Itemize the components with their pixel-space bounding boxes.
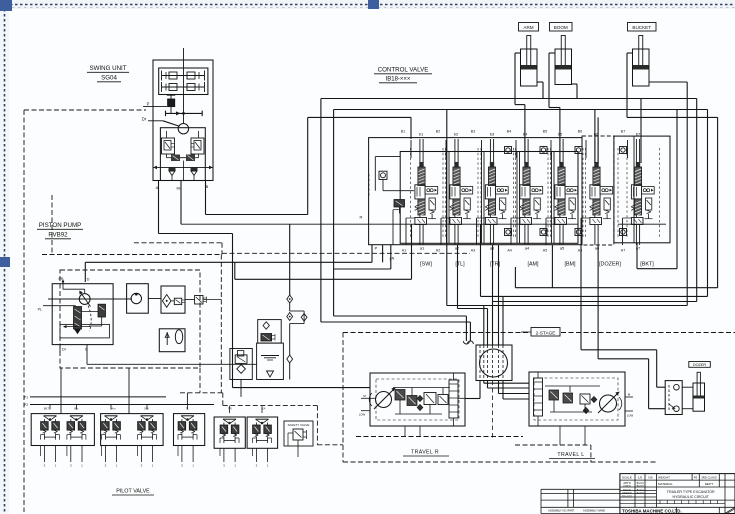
cylinder bucket body	[633, 49, 650, 86]
valve section &#91;BM&#93; spool cap	[559, 162, 563, 167]
svg-text:[AM]: [AM]	[527, 262, 539, 268]
swivel passage lines	[479, 345, 481, 381]
svg-text:1/5: 1/5	[638, 475, 643, 479]
swing makeup line	[153, 166, 213, 168]
svg-text:B5: B5	[543, 130, 547, 134]
swing bridge block left	[171, 155, 180, 162]
cylinder bucket label box	[628, 23, 657, 32]
cooler check diamond	[237, 365, 246, 374]
control valve inlet dashed	[368, 174, 370, 197]
reservoir tank box	[257, 343, 284, 379]
valve section &#91;SW&#93; relief valve	[429, 198, 435, 210]
svg-text:'84.9.5: '84.9.5	[636, 485, 644, 488]
tank accumulator ellipse	[175, 330, 182, 344]
wire swivel to travel L port 3	[498, 381, 500, 394]
travel L inner dashed box	[534, 378, 618, 420]
valve section &#91;BKT&#93; spool cap	[636, 162, 640, 167]
svg-text:REP'T: REP'T	[705, 482, 714, 486]
valve section &#91;AM&#93; spool stem	[524, 215, 526, 218]
svg-text:SWING UNIT: SWING UNIT	[89, 65, 126, 72]
valve section &#91;TR&#93; load check box	[496, 187, 509, 195]
svg-text:ARM: ARM	[523, 25, 533, 30]
svg-text:TRAVEL R: TRAVEL R	[411, 450, 439, 456]
travel R inner dashed box	[376, 379, 459, 420]
valve section &#91;BKT&#93; spool stem	[635, 215, 637, 218]
valve section &#91;SW&#93; spool cap	[419, 162, 423, 167]
valve section &#91;SW&#93; spool upper hatch	[418, 167, 425, 186]
valve section &#91;SW&#93; B-port line	[410, 140, 412, 158]
valve section &#91;TR&#93; spool lower hatch	[488, 199, 495, 215]
return check diamond top	[263, 322, 269, 329]
valve section &#91;TL&#93; B-port line	[445, 140, 447, 158]
control valve inner partial rect	[374, 157, 376, 191]
title block signature row ticks	[656, 503, 725, 505]
travel L motor circle	[600, 395, 617, 412]
pilot group 4a lower stubs	[223, 448, 225, 462]
2-stage select label box	[531, 328, 560, 337]
valve section &#91;SW&#93; spool stem	[419, 215, 421, 218]
svg-text:A1: A1	[402, 249, 406, 253]
cylinder bucket piston	[633, 65, 649, 70]
svg-text:P: P	[375, 246, 378, 251]
filter check diamond	[162, 295, 171, 308]
cylinder arm label box	[519, 23, 539, 32]
valve section &#91;DOZER&#93; lower band	[590, 218, 602, 225]
svg-text:3RD CLASS: 3RD CLASS	[701, 475, 717, 479]
selection handle top-left	[0, 0, 12, 11]
svg-text:'84.8.9: '84.8.9	[636, 492, 644, 495]
valve section &#91;DOZER&#93; spool center band	[590, 185, 600, 199]
tank arrow valve	[166, 332, 168, 345]
valve section &#91;BM&#93; top stubs	[559, 139, 561, 163]
svg-text:A5: A5	[543, 249, 547, 253]
safety valve box	[284, 421, 313, 446]
pilot group 2 lower stubs	[104, 446, 106, 463]
svg-text:TRAVEL L: TRAVEL L	[557, 452, 584, 458]
svg-text:BUCKET: BUCKET	[632, 25, 651, 30]
svg-text:A4: A4	[507, 249, 511, 253]
selection border top	[0, 4, 735, 6]
svg-text:ASSEMBLY NAME: ASSEMBLY NAME	[583, 509, 605, 513]
valve section &#91;TL&#93; load check box	[460, 187, 473, 195]
valve section &#91;AM&#93; spool cap	[524, 162, 528, 167]
valve section &#91;DOZER&#93; spool lower hatch	[593, 199, 600, 215]
svg-text:PL: PL	[38, 308, 42, 312]
wire pilot P dashed to swing	[24, 109, 146, 111]
valve section &#91;BM&#93; relief valve	[569, 198, 575, 210]
dashed below travel L	[515, 444, 591, 446]
valve section &#91;DOZER&#93; spring left	[590, 205, 593, 207]
wire pN branch	[390, 245, 392, 269]
swivel center drain dashed	[492, 381, 494, 441]
valve section &#91;BKT&#93; lower band	[631, 218, 643, 225]
svg-text:P: P	[147, 102, 150, 107]
svg-text:ASSEMBLY NO./PART: ASSEMBLY NO./PART	[548, 509, 575, 513]
valve section &#91;DOZER&#93; A-port line	[580, 218, 582, 245]
swivel joint box	[476, 345, 512, 381]
svg-text:D: D	[87, 278, 90, 282]
svg-text:Am: Am	[111, 407, 116, 411]
dashed pump tail down	[199, 368, 201, 393]
svg-text:CONTROL VALVE: CONTROL VALVE	[378, 67, 429, 74]
valve section &#91;SW&#93; bottom stubs	[419, 225, 421, 246]
pilot feed drops	[49, 405, 51, 410]
wire mid vertical b1-b2	[446, 110, 448, 306]
control valve dozer section dashed box	[582, 136, 614, 245]
pump motor circle	[131, 293, 141, 303]
swing check valve right	[191, 168, 198, 171]
valve section &#91;AM&#93; relief valve	[534, 198, 540, 210]
control valve inlet relief	[394, 200, 405, 208]
valve section &#91;DOZER&#93; spool stem	[594, 215, 596, 218]
tank unit box	[159, 329, 185, 352]
svg-text:TOSHIBA MACHINE CO.LTD.: TOSHIBA MACHINE CO.LTD.	[622, 508, 682, 513]
wire swing B to valve b1	[205, 181, 207, 215]
pilot group 1 lower stubs	[43, 446, 45, 463]
travel R output line	[458, 397, 465, 399]
dashed boundary left vertical	[23, 110, 25, 512]
wire boom base port	[572, 83, 578, 85]
valve section &#91;BM&#93; bottom stubs	[559, 225, 561, 246]
pilot group 4b box	[247, 417, 278, 448]
svg-text:[BM]: [BM]	[564, 262, 576, 268]
cylinder boom piston	[556, 65, 572, 70]
pilot group 1 lower stubs	[70, 446, 72, 463]
pilot group 2 lower stubs	[140, 446, 142, 463]
dashed swing unit left	[51, 195, 53, 255]
return valve box	[258, 320, 282, 344]
valve section &#91;BM&#93; A-port line	[545, 218, 547, 245]
valve section &#91;AM&#93; spool upper hatch	[523, 167, 530, 186]
return valve element	[261, 334, 272, 342]
valve section &#91;AM&#93; spring left	[520, 205, 523, 207]
dashed below travel R	[356, 436, 523, 438]
valve section &#91;TL&#93; bottom stubs	[454, 225, 456, 246]
pilot group 4b lower stubs	[255, 448, 257, 462]
valve section &#91;TR&#93; spool stem	[489, 215, 491, 218]
valve section &#91;BKT&#93; spring left	[631, 205, 634, 207]
valve section &#91;TR&#93; spool upper hatch	[488, 167, 495, 186]
valve section &#91;BM&#93; lower band	[555, 218, 567, 225]
valve section &#91;TR&#93; B-port line	[481, 140, 483, 158]
quick coupler hooks	[463, 341, 469, 344]
valve section &#91;AM&#93; top stubs	[524, 139, 526, 163]
valve section &#91;BKT&#93; spool lower hatch	[634, 199, 641, 215]
svg-text:A7: A7	[621, 249, 625, 253]
dozer cylinder piston	[693, 396, 704, 399]
swing rotary group box	[159, 68, 208, 95]
wire BKT a7 return	[676, 110, 678, 269]
valve section &#91;DOZER&#93; B-port line	[585, 140, 587, 158]
control valve bank inner box	[400, 152, 578, 244]
travel R port stubs	[361, 397, 376, 399]
valve boundary port circles top	[505, 147, 512, 154]
travel R brake valve	[395, 390, 405, 401]
svg-text:MATERIAL: MATERIAL	[658, 482, 673, 486]
swing unit outer box	[153, 60, 213, 181]
check valve 2 on Mu line	[287, 313, 293, 321]
svg-text:b2: b2	[454, 132, 459, 137]
svg-text:P2: P2	[24, 403, 28, 407]
svg-text:P1: P1	[24, 396, 28, 400]
valve section &#91;TR&#93; spool cap	[490, 162, 494, 167]
wire swing Mu down	[180, 181, 182, 225]
check valve 3 on Mu line	[287, 355, 293, 363]
valve section &#91;SW&#93; spool center band	[415, 185, 425, 199]
dashed boundary swing bottom step	[134, 242, 222, 244]
svg-text:kg: kg	[694, 475, 698, 479]
svg-text:YA: YA	[262, 407, 266, 411]
swing center drain line	[183, 161, 185, 181]
wire b7 feed	[640, 99, 642, 164]
swivel joint circle	[480, 349, 508, 377]
valve section &#91;AM&#93; spool center band	[520, 185, 530, 199]
pilot feed verticals from pump area	[60, 368, 62, 414]
valve bank lower gallery line	[181, 223, 578, 225]
pilot group 3 box	[174, 414, 205, 446]
valve section &#91;TL&#93; spool cap	[454, 162, 458, 167]
travel R shuttle diamonds	[417, 396, 423, 402]
svg-text:B7: B7	[621, 130, 625, 134]
travel R shuttle box	[407, 396, 417, 406]
selection handle top-middle	[368, 0, 379, 9]
svg-text:IB18-×××: IB18-×××	[386, 77, 411, 83]
valve section &#91;BM&#93; spool stem	[559, 215, 561, 218]
dashed pump unit rect	[60, 270, 200, 368]
svg-text:a1: a1	[420, 246, 425, 251]
valve section &#91;SW&#93; top stubs	[419, 139, 421, 163]
pump feedback link	[88, 306, 91, 332]
wire dozer section to dozer valve bottom	[597, 245, 599, 359]
svg-text:BOOM: BOOM	[554, 25, 568, 30]
cylinder arm body	[521, 49, 538, 86]
svg-text:[SW]: [SW]	[420, 262, 432, 268]
cylinder boom rod	[561, 36, 565, 67]
check valve on Mu line	[287, 295, 293, 303]
valve section &#91;AM&#93; load check box	[530, 187, 543, 195]
valve section &#91;TL&#93; lower band	[450, 218, 462, 225]
wire main loop B top	[334, 109, 708, 111]
swing lever bar	[166, 112, 203, 114]
wire dozer section to dozer valve top	[580, 245, 582, 350]
valve section boundary walls	[446, 152, 448, 244]
valve section &#91;TR&#93; bottom stubs	[489, 225, 491, 246]
valve section &#91;BM&#93; spring left	[555, 205, 558, 207]
swing relief valve right	[191, 138, 204, 154]
swing shaft	[183, 48, 185, 124]
control valve inlet port symbol	[379, 171, 387, 179]
cooler top element	[237, 351, 243, 356]
svg-text:SAFETY VALVE: SAFETY VALVE	[288, 423, 310, 427]
pump PB pilot line	[62, 282, 64, 290]
valve section &#91;BKT&#93; top stubs	[635, 139, 637, 163]
svg-text:[DOZER]: [DOZER]	[599, 262, 621, 268]
wire swing A to travel R	[158, 181, 160, 234]
pump inner bottom box	[60, 324, 109, 338]
svg-text:WEIGHT: WEIGHT	[658, 475, 670, 479]
svg-text:b1: b1	[419, 132, 424, 137]
cylinder arm rod	[527, 36, 531, 67]
valve section &#91;TL&#93; relief valve	[464, 198, 470, 210]
travel R bottom stubs	[404, 426, 406, 437]
travel L counterbalance spool	[534, 378, 543, 416]
valve section &#91;AM&#93; A-port line	[510, 218, 512, 245]
travel L brake valves	[549, 390, 559, 400]
wire main loop A left drop	[320, 99, 322, 323]
wire boom rod port	[549, 52, 555, 54]
pilot supply line 2	[30, 404, 214, 406]
valve section &#91;BM&#93; B-port line	[550, 140, 552, 158]
dashed boundary mid horizontal	[222, 252, 470, 254]
selection handle left-middle	[0, 257, 10, 267]
valve section &#91;DOZER&#93; top stubs	[594, 139, 596, 163]
valve section &#91;TR&#93; relief valve	[500, 198, 506, 210]
svg-text:SG04: SG04	[101, 75, 117, 82]
svg-text:PISTON PUMP: PISTON PUMP	[39, 222, 82, 229]
wire BM section drop	[551, 245, 553, 288]
valve section &#91;AM&#93; pilot dashed lines	[515, 148, 517, 238]
svg-text:A2: A2	[436, 249, 440, 253]
pilot supply line 1	[30, 396, 166, 398]
valve section &#91;BKT&#93; spool center band	[631, 185, 641, 199]
wire main loop B left drop	[333, 110, 335, 317]
svg-text:CHK'D: CHK'D	[623, 485, 631, 488]
valve section &#91;SW&#93; lower band	[415, 218, 427, 225]
wire arm rod port	[515, 52, 521, 54]
valve section &#91;SW&#93; A-port line	[405, 218, 407, 245]
dozer pilot check valve box	[665, 381, 682, 415]
svg-text:a6: a6	[595, 246, 600, 251]
pilot lever valve at x=147	[141, 415, 154, 417]
dozer label box	[689, 362, 711, 368]
wire dozer valve to cylinder bottom	[682, 408, 693, 410]
valve section &#91;DOZER&#93; spool cap	[594, 162, 598, 167]
travel L internal lines	[545, 385, 600, 387]
dashed travel boundary horizontal	[343, 332, 529, 334]
dashed pilot step	[316, 406, 318, 445]
svg-text:HYDRAULIC CIRCUIT: HYDRAULIC CIRCUIT	[673, 495, 710, 499]
swing motor circle	[178, 124, 188, 134]
svg-text:NS: NS	[648, 475, 652, 479]
valve section &#91;TL&#93; top stubs	[454, 139, 456, 163]
valve section &#91;AM&#93; bottom stubs	[524, 225, 526, 246]
cooler box	[230, 349, 252, 380]
travel L bottom stubs	[559, 426, 561, 445]
reservoir tank symbol	[267, 371, 274, 377]
pilot group 4a box	[214, 417, 245, 448]
pilot lever valve at x=76.4	[70, 415, 83, 417]
svg-text:LOW: LOW	[359, 413, 366, 417]
valve section &#91;BM&#93; spool lower hatch	[558, 199, 565, 215]
swing bridge block right	[186, 155, 195, 162]
travel R motor arrow	[374, 389, 394, 409]
wire dozer valve to cylinder top	[682, 386, 693, 388]
valve section &#91;TR&#93; spool center band	[485, 185, 495, 199]
pump control links	[82, 311, 99, 313]
valve section &#91;AM&#93; lower band	[520, 218, 532, 225]
svg-text:B: B	[206, 184, 209, 189]
filter element	[174, 298, 181, 304]
svg-text:PILOT VALVE: PILOT VALVE	[116, 489, 150, 495]
travel L port stubs	[625, 396, 633, 398]
valve section &#91;TR&#93; pilot dashed lines	[480, 148, 482, 238]
pilot lever valve at x=262	[256, 418, 269, 420]
valve section &#91;AM&#93; B-port line	[515, 140, 517, 158]
svg-text:PVB92: PVB92	[48, 232, 68, 239]
travel R motor circle	[376, 392, 392, 408]
cooler valve	[235, 355, 247, 364]
pump swash arrow	[80, 292, 90, 307]
pump outer box	[52, 284, 113, 345]
cylinder bucket rod	[639, 36, 643, 67]
pump shaft line	[48, 298, 132, 300]
valve section &#91;BKT&#93; bottom stubs	[635, 225, 637, 246]
pilot lever valve at x=50	[44, 415, 57, 417]
title block corner diagonal	[725, 507, 735, 513]
valve section &#91;TR&#93; spring left	[485, 205, 488, 207]
valve section &#91;BKT&#93; B-port line	[627, 140, 629, 158]
valve section &#91;SW&#93; spool lower hatch	[418, 199, 425, 215]
wire main loop A top	[321, 98, 697, 100]
wire filter to pilot supply	[240, 380, 242, 397]
valve section &#91;DOZER&#93; pilot dashed lines	[585, 148, 587, 238]
swing rotary pistons row 2	[162, 86, 204, 88]
cylinder boom label box	[550, 23, 573, 32]
travel R internal lines	[393, 387, 450, 389]
swing relief valve left	[162, 138, 175, 154]
pilot group 3 lower stubs	[181, 446, 183, 463]
svg-text:DOZER: DOZER	[693, 363, 707, 367]
wire TR to swivel 2	[498, 245, 500, 345]
valve section &#91;BKT&#93; load check box	[642, 187, 655, 195]
travel L box	[529, 372, 625, 426]
safety valve symbol	[293, 429, 303, 440]
valve section &#91;DOZER&#93; spool upper hatch	[593, 167, 600, 186]
valve section &#91;DOZER&#93; bottom stubs	[594, 225, 596, 246]
travel L shuttle diamonds	[591, 397, 597, 403]
wire swivel to travel L port 4	[502, 381, 504, 400]
svg-text:b3: b3	[490, 132, 495, 137]
swing valve lower box	[160, 128, 205, 181]
valve section &#91;BM&#93; pilot dashed lines	[550, 148, 552, 238]
valve section &#91;SW&#93; pilot dashed lines	[410, 148, 412, 238]
svg-text:B1: B1	[401, 130, 405, 134]
wire TR to swivel 1	[492, 245, 494, 345]
valve section &#91;TR&#93; A-port line	[476, 218, 478, 245]
wire AM section drop	[480, 224, 482, 296]
valve section &#91;DOZER&#93; load check box	[600, 187, 613, 195]
valve section &#91;BM&#93; spool upper hatch	[558, 167, 565, 186]
svg-text:A3: A3	[471, 249, 475, 253]
valve section &#91;TL&#93; spool stem	[454, 215, 456, 218]
travel R box	[370, 373, 465, 426]
suction line to reservoir	[87, 363, 257, 365]
svg-text:B6: B6	[578, 130, 582, 134]
swing bridge links	[180, 157, 186, 159]
valve section &#91;BKT&#93; pilot dashed lines	[626, 148, 628, 238]
wire swivel to travel L port 2	[487, 381, 489, 389]
swing check valve left	[169, 168, 176, 171]
pilot lever valve at x=229.5	[223, 418, 236, 420]
reservoir surface glyph	[261, 355, 279, 357]
relief small component	[195, 296, 203, 305]
pilot group 2 box	[101, 414, 164, 446]
valve section &#91;AM&#93; spool lower hatch	[523, 199, 530, 215]
svg-text:B4: B4	[507, 130, 511, 134]
pilot lever valve at x=187.5	[181, 415, 194, 417]
wire swivel to travel L port 1	[483, 381, 485, 384]
valve section &#91;BM&#93; load check box	[565, 187, 578, 195]
